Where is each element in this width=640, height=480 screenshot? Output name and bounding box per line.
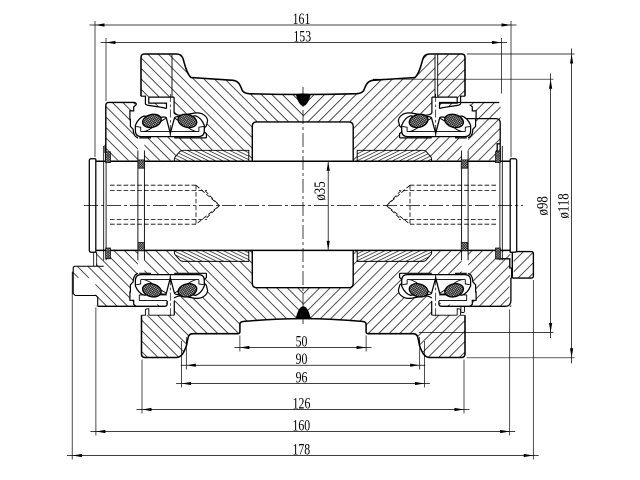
lower-right seal o-ring right <box>443 282 465 299</box>
upper-left block inner face step <box>105 144 106 160</box>
extension lines dim 90 <box>185 337 187 370</box>
lower-right bracket-flange gap (air) <box>432 301 510 315</box>
upper-right seal cavity (air) <box>398 96 476 160</box>
lower-right flange top edge <box>432 309 465 316</box>
lower-left hub o-ring <box>138 243 145 251</box>
center weld bead bottom <box>296 306 311 319</box>
extension lines dia 118 <box>467 53 575 55</box>
lower-left bushing <box>174 251 248 262</box>
lower-right slot between block and plate (air) <box>510 252 514 278</box>
upper-right labyrinth slit groove outline <box>432 97 457 113</box>
dimension dia 98 tread diameter <box>550 74 552 338</box>
upper-right bracket bore seal ring <box>496 152 501 163</box>
left bore gap channel <box>103 146 105 260</box>
upper-right bracket clearance slot (air) <box>461 96 502 103</box>
lower-left block slit outline <box>139 295 167 301</box>
svg-text:90: 90 <box>296 351 308 368</box>
upper-left bracket bore seal ring <box>106 152 111 163</box>
left hub bore gap lines <box>137 151 139 261</box>
upper-right seal ring inner details <box>403 118 470 136</box>
lower-left flange top edge <box>142 309 175 316</box>
roller and bracket upper half left (hatched cut section) <box>106 54 501 160</box>
lower-left seal centerline <box>169 277 171 317</box>
lower-right hub-bore gap (air) <box>462 251 469 273</box>
extension lines top dims <box>94 21 96 157</box>
upper-left cavity left boundary <box>130 105 138 138</box>
lower-left mounting plate <box>73 266 104 306</box>
lower-left bracket bore seal ring <box>106 248 111 259</box>
upper-left bushing <box>174 150 248 161</box>
shaft center boss lower outline <box>252 250 353 287</box>
upper-left flange parting line <box>171 55 173 97</box>
lower-right seal o-ring left <box>408 282 430 299</box>
upper-left labyrinth slit groove outline <box>149 97 174 113</box>
lower-left seal o-ring right <box>177 282 199 299</box>
lower-left seal ring inner details <box>136 275 203 293</box>
roller and bracket upper half right (hatched cut section) <box>106 54 501 160</box>
upper-left cavity bottom steps <box>139 134 206 138</box>
right bracket bore gap (air) <box>500 146 502 260</box>
upper-right cavity top-right boundary <box>398 113 432 138</box>
lower-right seal centerline <box>435 277 437 317</box>
lower-left bracket-flange gap (air) <box>97 301 175 315</box>
upper-right seal o-ring left <box>408 112 430 129</box>
lower-left mirrored cavity bottom steps <box>139 273 206 277</box>
right bore gap channel <box>501 146 503 260</box>
tread profile upper outline <box>141 54 465 96</box>
lower-right mirrored cavity top-right boundary <box>398 273 432 298</box>
extension lines dim 160 <box>95 308 97 436</box>
svg-text:153: 153 <box>293 28 311 45</box>
extension lines dim 50 <box>239 336 241 352</box>
extension lines dia 98 <box>373 78 554 80</box>
roller and bracket lower half right (hatched cut section) <box>72 251 533 358</box>
right oil passage cone <box>387 185 411 224</box>
horizontal centerline (shaft axis) <box>84 205 523 207</box>
svg-text:ø118: ø118 <box>555 193 572 218</box>
tread profile lower outline <box>142 315 466 357</box>
upper-right flange underside and lip <box>440 96 466 108</box>
dimension 178 overall width <box>67 455 539 457</box>
shaft center boss upper outline <box>252 122 353 161</box>
lower-left seal cavity (air) <box>130 251 208 315</box>
dimension dia 35 shaft diameter <box>327 161 329 250</box>
lower-right block bottom <box>439 259 512 307</box>
lower-left seal o-ring left <box>141 282 163 299</box>
lower-right metal seal ring pair <box>402 275 471 296</box>
upper-right metal seal ring pair <box>402 116 471 137</box>
roller and bracket lower half left (hatched cut section) <box>72 251 533 358</box>
upper-right bushing <box>357 150 431 161</box>
svg-text:ø35: ø35 <box>312 181 329 200</box>
lower-right block bottom tab <box>461 306 465 312</box>
svg-text:126: 126 <box>293 395 311 412</box>
right shaft end cap <box>510 159 517 252</box>
lower-right mounting plate <box>512 252 533 279</box>
dimension 153 bracket span <box>101 42 508 44</box>
upper-left seal o-ring left <box>141 112 163 129</box>
lower-left mirrored cavity top-right boundary <box>174 273 208 298</box>
dimension 96 hub width <box>176 383 430 385</box>
lower-left metal seal ring pair <box>135 275 204 296</box>
svg-text:161: 161 <box>293 11 311 28</box>
lower-right block slit outline <box>439 295 467 301</box>
lower-right bracket bore seal ring <box>496 248 501 259</box>
lower-left web face <box>173 301 175 315</box>
upper-right seal o-ring right <box>443 112 465 129</box>
upper-left cavity top-right boundary <box>174 113 208 138</box>
upper-left bracket block outline <box>106 102 137 160</box>
svg-text:50: 50 <box>296 333 308 350</box>
upper-left seal cavity (air) <box>130 96 208 160</box>
svg-text:96: 96 <box>296 369 308 386</box>
upper-right cavity bottom steps <box>400 134 467 138</box>
shaft bottom line <box>96 249 510 251</box>
right hub bore gap lines <box>467 151 469 261</box>
lower-left mirrored cavity left boundary <box>130 273 138 306</box>
lower-left block bottom <box>98 301 168 306</box>
upper-left seal ring inner details <box>136 118 203 136</box>
svg-text:ø98: ø98 <box>534 196 551 215</box>
upper-right labyrinth slit groove (air) <box>432 97 457 113</box>
dimension dia 118 flange diameter <box>571 49 573 364</box>
lower-right seal ring inner details <box>403 275 470 293</box>
dimension 161 overall shaft length <box>90 24 517 26</box>
upper-left labyrinth slit groove (air) <box>149 97 174 113</box>
upper-left metal seal ring pair <box>135 116 204 137</box>
shaft center boss lower <box>252 250 353 288</box>
upper-left flange underside and lip <box>141 96 167 108</box>
lower-right web face <box>431 301 433 315</box>
upper-right flange parting channel <box>435 55 437 97</box>
upper-right hub o-ring <box>461 160 468 168</box>
shaft top line <box>96 160 510 162</box>
right oil passage hidden lines <box>410 184 496 186</box>
svg-text:178: 178 <box>292 441 310 458</box>
lower-right hub o-ring <box>461 243 468 251</box>
lower-left hub-bore gap (air) <box>138 251 145 273</box>
lower-left block slit groove (air) <box>139 295 167 301</box>
upper-left hub o-ring <box>138 160 145 168</box>
lower-right bushing <box>357 251 431 262</box>
upper-left seal o-ring right <box>177 112 199 129</box>
dimension 160 bracket bore span <box>90 431 515 433</box>
shaft center boss upper <box>252 122 353 162</box>
dimension 50 tread gap width <box>234 347 371 349</box>
shaft clear band <box>84 162 520 250</box>
upper-right bracket block top line <box>439 102 499 104</box>
left cap seat lines <box>93 252 95 266</box>
svg-text:160: 160 <box>292 417 310 434</box>
lower-right mirrored cavity bottom steps <box>400 273 467 277</box>
left bracket bore gap (air) <box>104 146 106 260</box>
left shaft end cap <box>89 159 96 252</box>
lower-right seal cavity (air) <box>398 251 476 315</box>
extension lines dim 96 <box>181 341 183 388</box>
lower-right block corner relief (air) <box>509 279 534 307</box>
upper-right bracket block <box>455 119 500 161</box>
lower-right labyrinth slit groove (air) <box>432 298 457 314</box>
extension lines dim 178 <box>71 272 73 460</box>
extension lines dim 126 <box>141 360 143 414</box>
upper-right cavity left boundary <box>468 105 476 138</box>
dimension 126 flange width <box>137 409 470 411</box>
lower-left labyrinth slit groove (air) <box>149 298 174 314</box>
lower-right block slit groove (air) <box>439 295 467 301</box>
center weld bead top <box>296 93 311 106</box>
left oil passage hidden lines <box>110 184 196 186</box>
dimension 90 shoulder span <box>181 364 425 366</box>
left oil passage cone <box>196 185 220 224</box>
vertical centerline <box>302 87 304 324</box>
upper-right seal centerline <box>435 94 437 134</box>
lower-right mirrored cavity left boundary <box>468 273 476 306</box>
upper-left seal centerline <box>169 94 171 134</box>
